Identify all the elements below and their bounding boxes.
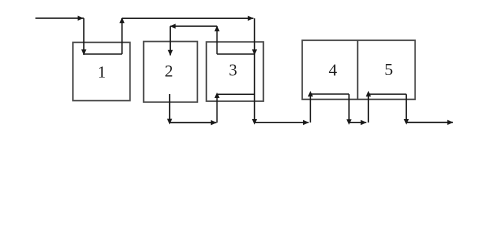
svg-text:5: 5 xyxy=(385,60,394,79)
svg-text:3: 3 xyxy=(229,61,238,80)
svg-text:4: 4 xyxy=(329,60,338,79)
svg-text:1: 1 xyxy=(97,62,106,81)
svg-text:2: 2 xyxy=(165,62,174,81)
